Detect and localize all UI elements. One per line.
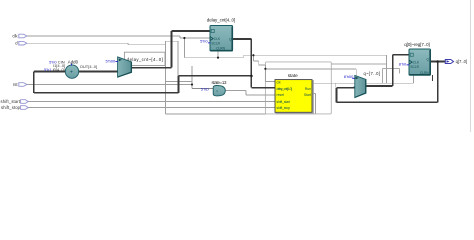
input port clk [12, 33, 27, 38]
bus feedback bottom [34, 92, 179, 94]
bus q feedback right vertical [437, 62, 439, 103]
svg-text:delay_cnt[4..0]: delay_cnt[4..0] [207, 18, 236, 23]
flip-flop delay_cnt[4..0] [207, 18, 236, 51]
wire clk branch vertical a [252, 55, 254, 61]
svg-text:CLK: CLK [214, 37, 221, 41]
wire clk under q reg [312, 82, 414, 84]
svg-text:shift_start: shift_start [1, 99, 21, 104]
bus mux2 data input [337, 87, 355, 89]
svg-text:q[0]~reg[7..0]: q[0]~reg[7..0] [404, 42, 430, 47]
wire d horizontal [27, 42, 128, 44]
wire comparator input [192, 87, 213, 89]
bus mux2 data vertical [336, 88, 338, 103]
wire left long vertical [165, 41, 167, 114]
bus mux2 output [366, 85, 393, 87]
wire clk distribution horizontal [184, 57, 243, 59]
adder Add0 [65, 59, 78, 78]
svg-text:delay_cnt[4..0]: delay_cnt[4..0] [277, 87, 293, 91]
svg-text:shift_stop: shift_stop [1, 105, 21, 110]
output port q[7..0] [445, 59, 467, 64]
svg-text:rst: rst [13, 82, 19, 87]
junction dot below delay_cnt [217, 57, 219, 59]
bus into q reg D [393, 54, 409, 56]
svg-text:reset: reset [277, 93, 285, 97]
svg-text:Start: Start [304, 93, 311, 97]
wire clk into delay_cnt [180, 37, 210, 39]
bus adder output [78, 71, 118, 73]
svg-text:5'hD: 5'hD [201, 87, 209, 92]
svg-text:state=13: state=13 [212, 80, 228, 85]
wire clk right vertical [386, 55, 388, 83]
junction dot feedback [250, 75, 253, 78]
bus feedback vertical [178, 76, 180, 93]
svg-text:SCLR: SCLR [211, 42, 220, 46]
flip-flop q[0]~reg[7..0] [404, 42, 430, 75]
wire rst horizontal [27, 84, 192, 86]
input port shift_start [1, 99, 29, 104]
svg-text:=: = [216, 89, 218, 93]
wire clk horizontal [27, 35, 180, 37]
bus delay_cnt Q vertical [250, 39, 252, 88]
wire shift_start [28, 101, 275, 103]
wire ena route horizontal [382, 68, 399, 70]
bus q feedback bottom [337, 101, 438, 103]
wire start output [312, 93, 315, 95]
junction dot clk state branch [264, 68, 266, 70]
wire rst branch vertical [191, 66, 193, 88]
bus q reg Q to port [431, 61, 446, 63]
pin tick mux1 const [115, 60, 118, 63]
svg-text:5'h0: 5'h0 [200, 38, 208, 43]
panel divider [470, 0, 472, 132]
svg-text:state: state [288, 73, 298, 78]
mux q~[7..0] [355, 71, 380, 98]
wire rst bottom route [166, 113, 266, 115]
wire route above mux2 [331, 63, 386, 65]
wire reset into state block [246, 94, 275, 96]
svg-text:8'h00: 8'h00 [344, 74, 354, 79]
wire clk branch vertical b [258, 61, 260, 65]
pin tick adder cin [70, 64, 73, 66]
junction dot clk long line [252, 54, 254, 56]
state machine block state [275, 73, 313, 113]
svg-text:CLRN: CLRN [216, 47, 225, 51]
wire clk vertical drop [183, 38, 185, 58]
wire d horizontal b [128, 44, 166, 46]
svg-text:Run: Run [305, 87, 311, 91]
svg-text:+: + [70, 69, 73, 75]
pin tick mux2 const [352, 77, 355, 80]
wire clk long horizontal [244, 54, 387, 56]
svg-text:q~[7..0]: q~[7..0] [364, 71, 381, 76]
comparator state=13 [212, 80, 228, 96]
bus into delay_cnt D [172, 30, 212, 32]
input port d [15, 41, 27, 46]
wire stub below q reg [432, 75, 434, 81]
svg-text:clk: clk [277, 80, 281, 84]
bus into adder [34, 71, 66, 73]
bus delay_cnt Q horizontal [233, 38, 252, 40]
wire clk jog [179, 36, 181, 38]
svg-text:shift_start: shift_start [277, 100, 291, 104]
bus mux1 output vertical [171, 31, 173, 68]
svg-text:5'h00: 5'h00 [106, 59, 116, 64]
wire clk branch horizontal a [253, 60, 258, 62]
mux delay_cnt~ [118, 57, 132, 77]
bus feedback left vertical [33, 72, 35, 93]
svg-text:delay_cnt~[4..0]: delay_cnt~[4..0] [127, 57, 163, 62]
wire d vertical drop [177, 41, 179, 76]
wire mux2 select vertical [355, 69, 357, 76]
wire d jog vertical [127, 43, 129, 45]
wire shift_stop [28, 107, 275, 109]
pin tick mux2 data [353, 87, 354, 88]
svg-text:q[7..0]: q[7..0] [456, 59, 468, 64]
container box around state machine [265, 62, 331, 114]
wire select horizontal [265, 68, 356, 70]
wire d top horizontal [166, 40, 179, 42]
wire comparator output vertical [245, 90, 247, 95]
wire rst branch horizontal [166, 80, 193, 82]
wire clk stub into q reg [413, 75, 415, 83]
wire clk into state pin [265, 81, 275, 83]
svg-text:SCLR: SCLR [410, 65, 419, 69]
svg-text:Add0: Add0 [68, 59, 79, 64]
bus feedback upper [179, 75, 252, 77]
pin tick ff2 sclr [407, 63, 409, 66]
wire comparator output [226, 89, 246, 91]
input port shift_stop [1, 105, 28, 110]
svg-text:OUT[4..0]: OUT[4..0] [80, 64, 97, 69]
junction dot clk [183, 37, 185, 39]
wire ena route stub [399, 69, 401, 74]
svg-text:8'h0: 8'h0 [399, 61, 407, 66]
wire clrn stub ff1 [217, 51, 219, 58]
svg-text:shift_stop: shift_stop [277, 106, 291, 110]
bus mux2 output vertical [392, 55, 394, 86]
wire clk into state block vertical [264, 65, 266, 82]
junction dot q output [436, 60, 439, 63]
bus mux1 output horizontal [132, 67, 172, 69]
svg-text:clk: clk [12, 33, 18, 38]
svg-text:5'h1 I0[4..0]: 5'h1 I0[4..0] [44, 67, 65, 72]
wire clk branch horizontal b [259, 64, 266, 66]
wire start output vertical [314, 94, 316, 114]
svg-text:CLRN: CLRN [420, 71, 429, 75]
wire stub left of mux2 [334, 83, 336, 87]
input port rst [13, 82, 27, 87]
svg-text:CLK: CLK [413, 61, 420, 65]
junction dot rst [191, 83, 193, 85]
pin tick ff1 sclr [208, 41, 210, 44]
bus into state delay pin [251, 87, 275, 89]
label box delay_cnt~[4..0] [124, 52, 165, 65]
wire clk step vertical [243, 55, 245, 58]
wire ena route vertical [381, 69, 383, 84]
